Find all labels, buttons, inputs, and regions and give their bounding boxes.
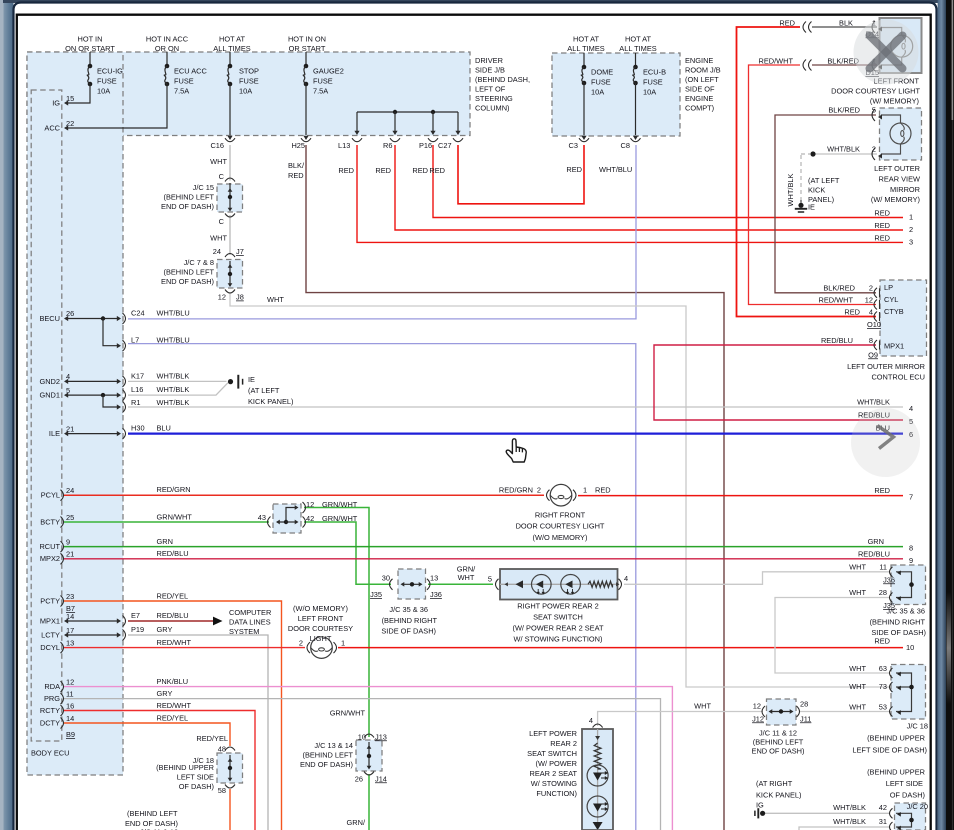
junction connector J/C 7 & 8 box xyxy=(217,260,243,289)
svg-text:REAR 2: REAR 2 xyxy=(550,739,577,748)
svg-text:RED: RED xyxy=(779,19,795,28)
wire L13 RED to node 3 xyxy=(357,145,903,242)
svg-text:CYL: CYL xyxy=(884,295,898,304)
svg-text:GND1: GND1 xyxy=(39,391,60,400)
svg-text:J/C 15: J/C 15 xyxy=(193,183,214,192)
svg-text:(BEHIND LEFT: (BEHIND LEFT xyxy=(753,738,804,747)
svg-text:PCTY: PCTY xyxy=(40,596,60,605)
svg-text:GRN: GRN xyxy=(157,537,173,546)
svg-text:WHT/BLK: WHT/BLK xyxy=(157,398,190,407)
wire RED feed D14 and CTYB xyxy=(737,27,877,317)
svg-text:(BEHIND DASH,: (BEHIND DASH, xyxy=(475,75,530,84)
junction block: driver side J/B fuse strip box xyxy=(27,52,470,136)
svg-text:4: 4 xyxy=(589,716,593,725)
svg-text:HOT AT: HOT AT xyxy=(573,35,599,44)
junction dot mirror WHT/BLK xyxy=(810,151,815,156)
svg-text:53: 53 xyxy=(879,703,887,712)
svg-text:BLK/: BLK/ xyxy=(288,161,305,170)
svg-text:11: 11 xyxy=(66,689,74,698)
connectors J/C column x230 xyxy=(225,178,235,182)
svg-text:MIRROR: MIRROR xyxy=(890,185,920,194)
J/C 15 internal xyxy=(229,183,231,210)
svg-text:RIGHT POWER REAR 2: RIGHT POWER REAR 2 xyxy=(517,602,599,611)
junction connector J/C 11 & 12 box xyxy=(767,699,797,725)
fuse ECU-B 10A xyxy=(635,53,637,67)
svg-text:(AT LEFT: (AT LEFT xyxy=(808,176,840,185)
svg-text:ON OR START: ON OR START xyxy=(65,44,115,53)
svg-text:OF DASH): OF DASH) xyxy=(179,782,214,791)
svg-text:ILE: ILE xyxy=(49,429,60,438)
svg-text:(BEHIND LEFT: (BEHIND LEFT xyxy=(163,268,214,277)
svg-text:4: 4 xyxy=(624,574,628,583)
svg-text:21: 21 xyxy=(66,424,74,433)
svg-text:H30: H30 xyxy=(131,424,145,433)
svg-text:WHT: WHT xyxy=(210,157,227,166)
wire BLK to D14 pin1 xyxy=(812,26,877,28)
svg-text:8: 8 xyxy=(909,544,913,553)
svg-text:WHT/BLK: WHT/BLK xyxy=(833,817,866,826)
svg-text:2: 2 xyxy=(872,145,876,154)
svg-text:7.5A: 7.5A xyxy=(313,87,328,96)
svg-text:GRY: GRY xyxy=(157,689,173,698)
ECU box: left outer mirror control ECU xyxy=(880,280,927,356)
svg-text:J/C 35 & 36: J/C 35 & 36 xyxy=(389,605,428,614)
wire RED LF courtesy bulb to node 10 xyxy=(338,647,903,649)
svg-text:(BEHIND LEFT: (BEHIND LEFT xyxy=(302,751,353,760)
svg-text:7: 7 xyxy=(909,493,913,502)
svg-text:COMPT): COMPT) xyxy=(685,104,714,113)
svg-text:J7: J7 xyxy=(236,247,244,256)
svg-text:42: 42 xyxy=(879,803,887,812)
svg-text:14: 14 xyxy=(66,612,74,621)
svg-text:C: C xyxy=(219,217,225,226)
fuse DOME 10A xyxy=(583,53,585,67)
svg-text:PRG: PRG xyxy=(44,694,60,703)
fuse ECU-IG 10A xyxy=(89,52,91,66)
wire GRN RCUT to node 8 xyxy=(64,546,903,548)
fuse GAUGE2 7.5A xyxy=(305,52,307,66)
wire BLK/RED to D15 pin1 xyxy=(812,64,877,66)
wire BLK/RED H25 long run xyxy=(306,145,724,830)
svg-text:(BEHIND UPPER: (BEHIND UPPER xyxy=(156,763,214,772)
svg-text:26: 26 xyxy=(355,774,363,783)
svg-text:(BEHIND RIGHT: (BEHIND RIGHT xyxy=(870,617,926,626)
svg-text:ENGINE: ENGINE xyxy=(685,94,713,103)
component box: left power rear 2 seat switch xyxy=(582,729,613,830)
svg-text:2: 2 xyxy=(869,284,873,293)
svg-text:RED: RED xyxy=(288,171,304,180)
svg-text:ECU-IG: ECU-IG xyxy=(97,67,123,76)
svg-text:13: 13 xyxy=(66,638,74,647)
connectors under fuse boxes C16 H25 L13 R6 P16 C27 C3 C8 xyxy=(225,138,235,142)
svg-text:RED/WHT: RED/WHT xyxy=(759,57,794,66)
svg-text:STOP: STOP xyxy=(239,67,259,76)
svg-text:12: 12 xyxy=(865,295,873,304)
svg-text:7.5A: 7.5A xyxy=(174,87,189,96)
svg-text:ROOM J/B: ROOM J/B xyxy=(685,66,721,75)
svg-text:(W/ MEMORY): (W/ MEMORY) xyxy=(870,97,919,106)
wire WHT J/C 11-12 pin28 continue xyxy=(800,711,890,713)
wire RED/WHT RCTY down xyxy=(64,711,255,830)
svg-text:MPX1: MPX1 xyxy=(884,342,904,351)
svg-text:ALL TIMES: ALL TIMES xyxy=(619,44,656,53)
svg-text:LEFT OF: LEFT OF xyxy=(475,85,506,94)
svg-text:L7: L7 xyxy=(131,336,139,345)
svg-text:WHT: WHT xyxy=(849,682,866,691)
svg-text:KICK PANEL): KICK PANEL) xyxy=(756,790,801,799)
wire RED/BLU MPX2 to node 9 xyxy=(64,558,903,560)
svg-text:MPX1: MPX1 xyxy=(40,616,60,625)
svg-text:30: 30 xyxy=(382,573,390,582)
svg-text:FUSE: FUSE xyxy=(591,78,611,87)
svg-text:1: 1 xyxy=(341,638,345,647)
junction connector J/C 18 right box xyxy=(891,665,926,720)
svg-text:GRN/: GRN/ xyxy=(347,818,366,827)
svg-text:LEFT POWER: LEFT POWER xyxy=(529,729,577,738)
wire BLK/RED mirror pin5 to LP xyxy=(775,115,876,293)
svg-text:RED/GRN: RED/GRN xyxy=(157,485,191,494)
junction connector J/C 15 box xyxy=(217,184,243,212)
svg-text:WHT/BLK: WHT/BLK xyxy=(786,174,795,207)
svg-text:24: 24 xyxy=(66,486,74,495)
mirror ECU pin connectors LP CYL CTYB MPX1 xyxy=(874,288,877,298)
svg-text:H25: H25 xyxy=(291,141,305,150)
ground IE at left kick panel (left) xyxy=(228,379,233,384)
svg-text:J/C 11 & 12: J/C 11 & 12 xyxy=(759,729,797,738)
svg-text:GRY: GRY xyxy=(157,625,173,634)
svg-text:FUNCTION): FUNCTION) xyxy=(536,789,577,798)
svg-text:O10: O10 xyxy=(867,320,881,329)
svg-text:L13: L13 xyxy=(338,141,350,150)
svg-text:14: 14 xyxy=(66,714,74,723)
svg-text:GRN/WHT: GRN/WHT xyxy=(157,512,193,521)
wire C27 RED to C3 xyxy=(458,145,584,204)
lamp: left outer rear view mirror bulb xyxy=(881,115,901,123)
svg-text:28: 28 xyxy=(879,588,887,597)
svg-text:LCTY: LCTY xyxy=(41,630,60,639)
svg-text:SIDE J/B: SIDE J/B xyxy=(475,66,505,75)
close X button overlay xyxy=(854,20,919,85)
wire PNK/BLU RDA down xyxy=(64,687,672,830)
svg-text:BLU: BLU xyxy=(157,424,171,433)
wire RED/YEL PCTY down left side xyxy=(64,601,282,830)
svg-text:WHT: WHT xyxy=(849,588,866,597)
wire WHT/BLK pin 31 xyxy=(799,827,890,830)
svg-text:4: 4 xyxy=(909,404,913,413)
left seat switch internals: resistor, motors xyxy=(597,729,599,830)
svg-text:LEFT OUTER: LEFT OUTER xyxy=(874,164,920,173)
J/C 7 & 8 internal xyxy=(229,261,231,286)
right seat switch internals: diode, motors, resistor xyxy=(500,583,617,585)
svg-text:ECU-B: ECU-B xyxy=(643,68,666,77)
wire WHT/BLU L7 long vertical xyxy=(128,344,636,830)
svg-text:WHT/BLK: WHT/BLK xyxy=(157,385,190,394)
J/C 11 & 12 internal xyxy=(770,711,792,713)
svg-text:FUSE: FUSE xyxy=(643,78,663,87)
junction connector 43 box xyxy=(273,504,301,533)
svg-text:FUSE: FUSE xyxy=(97,77,117,86)
svg-text:9: 9 xyxy=(66,537,70,546)
svg-text:GRN: GRN xyxy=(868,537,884,546)
svg-text:(BEHIND UPPER: (BEHIND UPPER xyxy=(867,768,925,777)
J/B exit parens xyxy=(123,313,126,324)
svg-text:ACC: ACC xyxy=(44,124,60,133)
svg-text:L16: L16 xyxy=(131,385,143,394)
svg-text:16: 16 xyxy=(66,701,74,710)
wire WHT J35 pin28 to pin63 xyxy=(775,598,890,674)
svg-text:RED: RED xyxy=(874,221,890,230)
svg-text:SIDE OF: SIDE OF xyxy=(685,85,715,94)
J/C 13 & 14 internal xyxy=(368,742,370,768)
svg-text:WHT: WHT xyxy=(849,664,866,673)
svg-text:RED: RED xyxy=(874,486,890,495)
component box: right power rear 2 seat switch xyxy=(500,569,618,600)
svg-text:WHT/BLK: WHT/BLK xyxy=(827,145,860,154)
svg-text:LEFT OUTER MIRROR: LEFT OUTER MIRROR xyxy=(847,362,925,371)
svg-text:LIGHT: LIGHT xyxy=(310,634,332,643)
svg-text:R1: R1 xyxy=(131,398,140,407)
component box: left outer rear view mirror xyxy=(880,108,922,160)
svg-text:C8: C8 xyxy=(621,141,630,150)
svg-text:C24: C24 xyxy=(131,309,145,318)
svg-text:(AT LEFT: (AT LEFT xyxy=(248,386,280,395)
LCTY pin row arrows xyxy=(67,634,118,636)
right page strip xyxy=(938,0,946,830)
svg-text:GRN/WHT: GRN/WHT xyxy=(330,709,366,718)
svg-text:FUSE: FUSE xyxy=(313,77,333,86)
svg-text:8: 8 xyxy=(869,336,873,345)
svg-text:O9: O9 xyxy=(868,350,878,359)
wire GRN/WHT pin13 to seat switch pin5 xyxy=(428,583,493,585)
svg-text:10: 10 xyxy=(906,643,914,652)
component box: left front door courtesy light (w/ memory) xyxy=(880,18,922,73)
svg-text:1: 1 xyxy=(583,485,587,494)
wire GRN/WHT pin42 to J/C 35-36 pin30 xyxy=(304,522,391,584)
svg-text:OR START: OR START xyxy=(289,44,326,53)
svg-text:25: 25 xyxy=(66,513,74,522)
wire R6 RED to node 2 xyxy=(395,145,903,230)
svg-text:END OF DASH): END OF DASH) xyxy=(161,202,214,211)
svg-text:(BEHIND LEFT: (BEHIND LEFT xyxy=(127,809,178,818)
svg-text:END OF DASH): END OF DASH) xyxy=(161,277,214,286)
svg-text:ALL TIMES: ALL TIMES xyxy=(567,44,604,53)
wire RED/WHT DCYL to LF courtesy bulb xyxy=(64,647,305,649)
svg-text:WHT/BLK: WHT/BLK xyxy=(157,371,190,380)
svg-text:DOOR COURTESY LIGHT: DOOR COURTESY LIGHT xyxy=(831,87,920,96)
svg-text:KICK PANEL): KICK PANEL) xyxy=(248,397,293,406)
wire WHT/BLK IG ground to pin 42 xyxy=(765,812,890,814)
svg-text:GRN/WHT: GRN/WHT xyxy=(322,514,358,523)
wire RED/BLU MPX1 to computer data lines xyxy=(128,620,214,622)
wire WHT/BLK K17 to ground IE xyxy=(128,380,227,382)
svg-text:WHT: WHT xyxy=(267,295,284,304)
svg-text:RED/WHT: RED/WHT xyxy=(819,295,854,304)
svg-text:58: 58 xyxy=(218,786,226,795)
connector pair D14 wire xyxy=(803,22,806,33)
MPX1 pin row arrows xyxy=(67,620,118,622)
svg-text:RED: RED xyxy=(595,485,611,494)
svg-text:E7: E7 xyxy=(131,611,140,620)
svg-text:J/C 20: J/C 20 xyxy=(907,802,928,811)
svg-text:WHT/BLK: WHT/BLK xyxy=(833,803,866,812)
svg-text:GND2: GND2 xyxy=(39,377,60,386)
wire RED courtesy bulb to node 7 xyxy=(578,495,903,497)
J/C 43 entry exit parens xyxy=(268,517,271,528)
svg-text:2: 2 xyxy=(299,638,303,647)
svg-text:SEAT SWITCH: SEAT SWITCH xyxy=(533,613,583,622)
svg-text:WHT/BLU: WHT/BLU xyxy=(157,336,190,345)
svg-text:WHT: WHT xyxy=(694,701,711,710)
wire BLU H30 to node 6 xyxy=(128,433,903,435)
svg-text:2: 2 xyxy=(537,485,541,494)
svg-text:IE: IE xyxy=(808,202,815,211)
svg-text:C3: C3 xyxy=(569,141,578,150)
svg-text:P19: P19 xyxy=(131,625,144,634)
svg-text:W/ STOWING: W/ STOWING xyxy=(531,779,578,788)
body ECU pin parens xyxy=(61,490,64,501)
svg-text:WHT: WHT xyxy=(849,703,866,712)
svg-text:1: 1 xyxy=(909,212,913,221)
svg-text:OR ON: OR ON xyxy=(155,44,179,53)
svg-text:LEFT SIDE: LEFT SIDE xyxy=(886,779,923,788)
svg-text:J8: J8 xyxy=(236,293,244,302)
courtesy bulb parens left front w/o memory xyxy=(307,642,310,653)
svg-text:FUSE: FUSE xyxy=(174,77,194,86)
svg-text:RDA: RDA xyxy=(44,682,60,691)
svg-text:WHT: WHT xyxy=(210,234,227,243)
wire WHT seat switch pin4 to J36 pin11 xyxy=(624,572,890,585)
svg-text:26: 26 xyxy=(66,309,74,318)
courtesy bulb parens right front xyxy=(547,490,550,501)
computer data lines arrow xyxy=(213,617,223,626)
svg-text:RED/BLU: RED/BLU xyxy=(858,549,890,558)
svg-text:HOT IN: HOT IN xyxy=(78,35,103,44)
svg-text:BLK/RED: BLK/RED xyxy=(823,284,855,293)
ground IE at left kick panel (right) xyxy=(798,203,803,208)
wire RED/BLU mirror ECU MPX1 to node 5 xyxy=(654,345,903,420)
lamp: left front door courtesy light bulb D14 xyxy=(881,28,902,36)
seat switch pin 5 and 4 parens xyxy=(496,579,499,590)
wire RED/YEL DCTY to J/C 18 xyxy=(64,723,230,746)
svg-text:5: 5 xyxy=(66,386,70,395)
svg-text:C: C xyxy=(219,172,225,181)
svg-text:10A: 10A xyxy=(591,88,604,97)
svg-text:COMPUTER: COMPUTER xyxy=(229,608,271,617)
svg-text:(BEHIND UPPER: (BEHIND UPPER xyxy=(867,734,925,743)
svg-text:(W/ POWER REAR 2 SEAT: (W/ POWER REAR 2 SEAT xyxy=(512,624,604,633)
wire GRN/WHT BCTY to J/C 43 xyxy=(64,521,269,523)
svg-text:GRN/WHT: GRN/WHT xyxy=(322,500,358,509)
svg-text:10A: 10A xyxy=(97,87,110,96)
J/C 43 internal xyxy=(276,520,280,525)
svg-text:END OF DASH): END OF DASH) xyxy=(300,760,353,769)
svg-text:STEERING: STEERING xyxy=(475,94,513,103)
svg-text:BODY ECU: BODY ECU xyxy=(31,749,69,758)
svg-text:12: 12 xyxy=(753,701,761,710)
svg-text:RED/YEL: RED/YEL xyxy=(157,713,189,722)
svg-text:P16: P16 xyxy=(419,141,432,150)
svg-text:(BEHIND RIGHT: (BEHIND RIGHT xyxy=(382,616,438,625)
svg-text:DCTY: DCTY xyxy=(40,718,60,727)
svg-text:RED/GRN: RED/GRN xyxy=(499,485,533,494)
svg-text:RED/YEL: RED/YEL xyxy=(196,734,228,743)
wire P16 RED to node 1 xyxy=(433,145,903,218)
next page chevron overlay xyxy=(851,408,920,477)
svg-text:LEFT SIDE OF DASH): LEFT SIDE OF DASH) xyxy=(852,746,927,755)
svg-text:3: 3 xyxy=(909,238,913,247)
wire GRY LCTY P19 down xyxy=(128,635,268,830)
junction connector J/C 35 & 36 middle box xyxy=(398,569,426,599)
junction connector J/C 20 box xyxy=(895,803,926,830)
svg-text:MPX2: MPX2 xyxy=(40,554,60,563)
svg-text:(W/ MEMORY): (W/ MEMORY) xyxy=(871,195,920,204)
svg-text:PCYL: PCYL xyxy=(41,491,60,500)
svg-text:LEFT FRONT: LEFT FRONT xyxy=(298,614,344,623)
svg-text:(W/O MEMORY): (W/O MEMORY) xyxy=(533,533,588,542)
right side pin connectors 11 28 63 73 53 42 31 xyxy=(890,567,893,577)
svg-text:SEAT SWITCH: SEAT SWITCH xyxy=(527,749,577,758)
svg-text:LEFT SIDE: LEFT SIDE xyxy=(177,773,214,782)
junction block: engine room J/B box xyxy=(552,53,680,136)
svg-text:RED/WHT: RED/WHT xyxy=(157,701,192,710)
svg-text:RED/YEL: RED/YEL xyxy=(157,591,189,600)
svg-text:22: 22 xyxy=(66,119,74,128)
svg-text:J/C 35 & 36: J/C 35 & 36 xyxy=(886,607,925,616)
svg-text:4: 4 xyxy=(66,372,70,381)
svg-text:12: 12 xyxy=(306,500,314,509)
wire WHT left seat switch to J/C 11-12 xyxy=(598,712,763,727)
lamp: right front door courtesy light bulb xyxy=(550,484,572,506)
svg-text:48: 48 xyxy=(218,745,226,754)
svg-text:21: 21 xyxy=(66,550,74,559)
svg-text:HOT AT: HOT AT xyxy=(625,35,651,44)
svg-text:63: 63 xyxy=(879,664,887,673)
svg-text:J35: J35 xyxy=(370,590,382,599)
svg-text:IG: IG xyxy=(52,99,60,108)
connector pair D15 wire xyxy=(803,60,806,71)
ground IG at right kick panel xyxy=(760,811,765,816)
svg-text:REAR 2 SEAT: REAR 2 SEAT xyxy=(529,769,577,778)
svg-text:DOME: DOME xyxy=(591,68,613,77)
svg-text:RED: RED xyxy=(566,165,582,174)
J/C 35 & 36 right internal xyxy=(896,572,912,598)
svg-text:REAR VIEW: REAR VIEW xyxy=(879,174,920,183)
svg-text:WHT/BLU: WHT/BLU xyxy=(157,309,190,318)
ECU box: BODY ECU inner box xyxy=(31,90,62,741)
svg-text:15: 15 xyxy=(66,94,74,103)
svg-text:13: 13 xyxy=(430,573,438,582)
svg-text:RED/BLU: RED/BLU xyxy=(157,611,189,620)
svg-text:J/C 13 & 14: J/C 13 & 14 xyxy=(314,741,353,750)
svg-text:CONTROL ECU: CONTROL ECU xyxy=(871,372,925,381)
svg-text:RED: RED xyxy=(412,166,428,175)
svg-text:PNK/BLU: PNK/BLU xyxy=(157,677,189,686)
junction connector J/C 35 & 36 right box xyxy=(891,565,926,605)
connectors J/C 13 & 14 xyxy=(364,734,374,738)
svg-text:BCTY: BCTY xyxy=(40,517,60,526)
svg-text:C27: C27 xyxy=(438,141,452,150)
J/B internal bus to L13 R6 P16 C27 xyxy=(357,111,458,113)
svg-text:END OF DASH): END OF DASH) xyxy=(752,747,805,756)
J/C 35 & 36 middle internal xyxy=(402,583,421,585)
svg-text:24: 24 xyxy=(213,247,221,256)
svg-text:RED: RED xyxy=(874,637,890,646)
wire RED/WHT feed D15 and CYL xyxy=(749,65,877,305)
svg-text:9: 9 xyxy=(909,556,913,565)
J/C 20 internal xyxy=(896,813,912,827)
svg-text:R6: R6 xyxy=(383,141,392,150)
GND2 pin row arrows xyxy=(67,380,118,382)
